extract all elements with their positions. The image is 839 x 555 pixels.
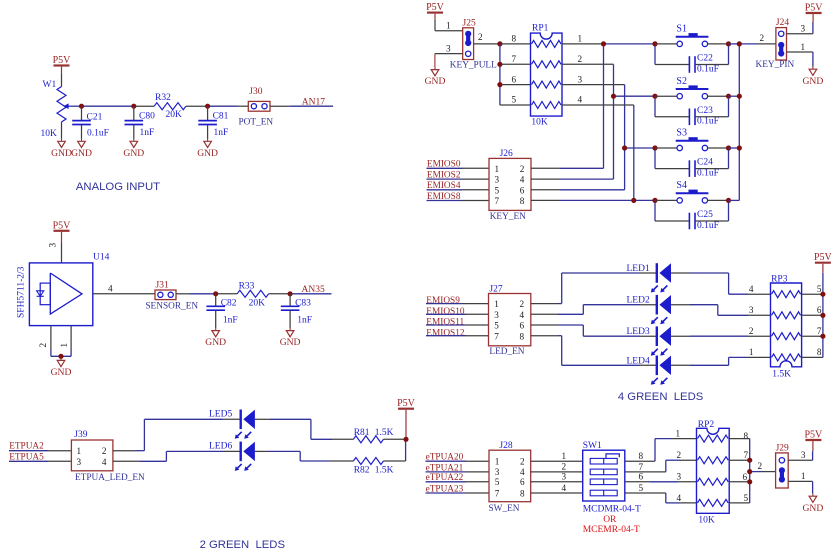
- wire: [502, 43, 530, 45]
- node junction (S4 tap): [631, 198, 636, 203]
- svg-text:0.1uF: 0.1uF: [697, 221, 719, 231]
- value label MCDMR-04-T: [583, 504, 641, 514]
- capacitor C81: [198, 106, 228, 138]
- node junction (RP1 pin6): [497, 82, 502, 87]
- wire: [802, 335, 821, 337]
- pin 3 label SW1: [562, 472, 567, 482]
- svg-text:SENSOR_EN: SENSOR_EN: [145, 302, 198, 312]
- svg-text:J25: J25: [463, 18, 476, 28]
- svg-text:2: 2: [578, 54, 583, 64]
- node junction (S1 left): [652, 41, 657, 46]
- wire: [627, 147, 653, 149]
- node junction (RP3 pin5): [820, 292, 825, 297]
- wire: [636, 199, 653, 201]
- pin 4 label RP1: [578, 95, 583, 105]
- svg-text:2: 2: [38, 343, 48, 348]
- pin 8 label RP2: [744, 431, 749, 441]
- wire: [61, 243, 63, 263]
- svg-text:1nF: 1nF: [214, 128, 229, 138]
- pin 6 label RP1: [512, 74, 517, 84]
- node junction (C83): [288, 291, 293, 296]
- wire: [300, 451, 353, 461]
- net EMIOS2: [427, 170, 490, 180]
- node junction (S4 left): [652, 198, 657, 203]
- wire: [531, 325, 584, 336]
- wire: [671, 335, 771, 337]
- svg-text:6: 6: [743, 472, 748, 482]
- svg-text:C21: C21: [87, 113, 103, 123]
- pin 5 label RP3: [817, 284, 822, 294]
- capacitor C24: [689, 158, 719, 179]
- svg-text:7: 7: [495, 488, 500, 498]
- svg-text:LED5: LED5: [209, 410, 232, 420]
- node junction (S2 right): [726, 94, 731, 99]
- svg-text:U14: U14: [93, 252, 110, 262]
- wire: [752, 471, 776, 473]
- pin 4 label RP3: [749, 284, 754, 294]
- svg-text:EMIOS11: EMIOS11: [426, 318, 464, 328]
- svg-text:1nF: 1nF: [297, 316, 312, 326]
- capacitor C22: [689, 54, 719, 75]
- svg-text:2: 2: [102, 446, 107, 456]
- wire: [613, 64, 615, 179]
- svg-text:7: 7: [495, 196, 500, 206]
- wire: [729, 199, 740, 201]
- net EMIOS12: [426, 328, 489, 338]
- wire: [655, 202, 689, 221]
- svg-text:8: 8: [639, 451, 644, 461]
- svg-text:LED6: LED6: [209, 442, 232, 452]
- svg-text:10K: 10K: [41, 129, 58, 139]
- svg-text:EMIOS12: EMIOS12: [426, 328, 465, 338]
- pin 8 label RP3: [817, 347, 822, 357]
- ground (J24): [803, 67, 824, 87]
- wire: [70, 326, 72, 357]
- pin 2 label RP3: [749, 326, 754, 336]
- svg-text:3: 3: [801, 450, 806, 460]
- resistor R33: [237, 281, 268, 308]
- wire: [729, 147, 740, 149]
- svg-text:RP3: RP3: [771, 274, 788, 284]
- wire: [729, 43, 740, 45]
- LED4: [627, 356, 672, 385]
- wire: [84, 105, 132, 107]
- resistor R32: [154, 93, 186, 120]
- wire: [742, 43, 776, 45]
- title 2 GREEN LEDS: [200, 539, 286, 551]
- resistor R81: [353, 428, 393, 443]
- svg-text:R32: R32: [155, 93, 171, 103]
- net eTPUA21: [426, 463, 490, 473]
- svg-text:R82: R82: [354, 465, 370, 475]
- wire: [671, 357, 729, 365]
- pin 5 label RP1: [512, 95, 517, 105]
- wire: [655, 46, 689, 65]
- wire: [531, 492, 583, 494]
- svg-text:SW_EN: SW_EN: [489, 504, 520, 514]
- svg-text:2: 2: [749, 326, 754, 336]
- pin 2 label U14: [38, 343, 48, 348]
- node junction (U14 gnd): [58, 354, 63, 359]
- potentiometer W1: [41, 80, 67, 139]
- node junction (S1 right): [726, 41, 731, 46]
- wire: [61, 122, 63, 139]
- node junction (bus S1): [737, 41, 742, 46]
- wire: [583, 304, 656, 306]
- svg-text:EMIOS9: EMIOS9: [426, 296, 460, 306]
- net EMIOS9: [426, 296, 489, 306]
- jumper J24: [756, 18, 795, 70]
- svg-text:1nF: 1nF: [140, 128, 155, 138]
- power symbol P5V (sensor): [53, 220, 72, 243]
- net eTPUA22: [426, 473, 490, 483]
- wire: [255, 450, 300, 452]
- wire: [531, 167, 604, 169]
- wire: [695, 202, 729, 221]
- net eTPUA20: [426, 453, 490, 463]
- wire: [113, 450, 144, 452]
- svg-text:LED3: LED3: [627, 327, 650, 337]
- svg-text:1: 1: [578, 34, 583, 44]
- pin 1 label RP1: [578, 34, 583, 44]
- node junction (S2 left): [652, 94, 657, 99]
- LED2: [627, 295, 672, 324]
- svg-text:4: 4: [520, 310, 525, 320]
- svg-text:LED_EN: LED_EN: [489, 347, 524, 357]
- pin 1 label U14: [59, 343, 69, 348]
- wire: [729, 356, 771, 358]
- svg-text:J26: J26: [500, 149, 513, 159]
- svg-text:R33: R33: [239, 281, 255, 291]
- svg-text:4: 4: [749, 284, 754, 294]
- svg-text:P5V: P5V: [426, 2, 445, 13]
- wire: [383, 438, 403, 440]
- svg-text:4 GREEN LEDS: 4 GREEN LEDS: [618, 391, 704, 403]
- pin 5 label RP2: [744, 493, 749, 503]
- pin 7 label RP3: [817, 326, 822, 336]
- svg-text:J27: J27: [489, 284, 502, 294]
- svg-text:C25: C25: [697, 210, 713, 220]
- pushbutton switch S4: [655, 180, 729, 203]
- svg-text:J24: J24: [776, 18, 789, 28]
- title 4 GREEN LEDS: [618, 391, 704, 403]
- svg-text:MCDMR-04-T: MCDMR-04-T: [583, 504, 641, 514]
- svg-text:1: 1: [676, 428, 681, 438]
- wire: [531, 481, 583, 483]
- ground (J29): [803, 494, 824, 514]
- ground (C81): [197, 139, 218, 159]
- wire: [802, 356, 823, 358]
- wire: [583, 335, 656, 337]
- svg-text:P5V: P5V: [805, 3, 824, 14]
- svg-text:GND: GND: [205, 337, 226, 348]
- svg-text:C23: C23: [697, 106, 713, 116]
- svg-text:7: 7: [494, 331, 499, 341]
- svg-text:3: 3: [495, 175, 500, 185]
- svg-text:1.5K: 1.5K: [375, 465, 394, 475]
- svg-text:GND: GND: [280, 337, 301, 348]
- power symbol P5V (2 leds): [397, 398, 416, 437]
- wire: [51, 355, 71, 357]
- pin 7 label RP2: [744, 450, 749, 460]
- svg-text:8: 8: [744, 431, 749, 441]
- wire: [562, 364, 657, 366]
- LED3: [627, 326, 672, 355]
- wire: [269, 293, 288, 295]
- wire: [133, 125, 135, 139]
- title ANALOG INPUT: [76, 181, 160, 193]
- pushbutton switch S1: [655, 24, 729, 47]
- svg-text:10K: 10K: [531, 118, 548, 128]
- wire: [671, 273, 729, 294]
- wire: [562, 43, 601, 45]
- svg-text:C83: C83: [295, 298, 311, 308]
- node junction (C80): [131, 104, 136, 109]
- svg-text:3: 3: [494, 310, 499, 320]
- wire: [788, 481, 812, 493]
- svg-text:3: 3: [749, 305, 754, 315]
- svg-text:0.1uF: 0.1uF: [697, 169, 719, 179]
- svg-text:4: 4: [520, 467, 525, 477]
- svg-text:POT_EN: POT_EN: [239, 118, 274, 128]
- svg-text:SFH5711-2/3: SFH5711-2/3: [17, 266, 27, 318]
- wire: [186, 105, 206, 107]
- wire: [143, 419, 145, 450]
- pin 3 label RP3: [749, 305, 754, 315]
- pushbutton switch S3: [655, 128, 729, 151]
- pin 2 label RP1: [578, 54, 583, 64]
- wire: [311, 419, 354, 439]
- wire: [625, 439, 697, 462]
- svg-text:P5V: P5V: [53, 55, 72, 66]
- wire: [671, 305, 718, 316]
- svg-text:4: 4: [677, 493, 682, 503]
- wire: [71, 105, 80, 107]
- wire: [655, 98, 689, 117]
- wire: [625, 481, 697, 483]
- wire: [531, 189, 625, 191]
- net AN17: [290, 97, 333, 107]
- svg-text:2: 2: [562, 462, 567, 472]
- wire: [695, 98, 729, 117]
- jumper J30: [239, 87, 274, 128]
- svg-text:ETPUA2: ETPUA2: [9, 441, 44, 451]
- svg-text:J30: J30: [249, 87, 262, 97]
- ground (J25): [425, 67, 446, 87]
- node junction (S2 tap): [611, 94, 616, 99]
- wire: [218, 293, 237, 295]
- wire: [729, 481, 747, 483]
- ground (W1): [51, 139, 72, 159]
- svg-text:4: 4: [520, 175, 525, 185]
- svg-text:S1: S1: [676, 24, 687, 35]
- capacitor C21: [72, 106, 109, 138]
- wire: [787, 52, 813, 67]
- net EMIOS8: [427, 192, 490, 202]
- svg-text:RP1: RP1: [532, 24, 549, 34]
- svg-text:3: 3: [446, 43, 451, 53]
- svg-text:RP2: RP2: [698, 420, 715, 430]
- wire: [50, 326, 52, 357]
- wire: [633, 105, 635, 200]
- node junction (bus S3): [737, 145, 742, 150]
- svg-text:0.1uF: 0.1uF: [697, 117, 719, 127]
- pin 2 label J29: [758, 461, 763, 471]
- wire: [474, 43, 498, 45]
- svg-text:5: 5: [744, 493, 749, 503]
- value label OR: [603, 515, 617, 525]
- svg-text:GND: GND: [51, 367, 72, 378]
- wire: [729, 459, 747, 461]
- wire: [616, 95, 653, 97]
- svg-text:2: 2: [677, 450, 682, 460]
- wire: [655, 150, 689, 169]
- pin 8 label SW1: [639, 451, 644, 461]
- svg-text:OR: OR: [603, 515, 617, 525]
- jumper J25: [450, 18, 497, 70]
- wire: [729, 502, 750, 504]
- capacitor C83: [281, 294, 312, 326]
- wire: [625, 493, 697, 503]
- pin 3 label J25: [446, 43, 451, 53]
- wire: [531, 471, 583, 473]
- power symbol P5V (analog input): [53, 55, 72, 74]
- pin 1 label SW1: [562, 451, 567, 461]
- svg-text:C80: C80: [139, 112, 155, 122]
- svg-text:6: 6: [520, 185, 525, 195]
- pin 1 label J25: [446, 21, 451, 31]
- wire: [435, 54, 463, 67]
- wire: [695, 150, 729, 169]
- power symbol P5V (key pin): [805, 3, 824, 23]
- svg-text:2: 2: [520, 164, 525, 174]
- capacitor C80: [125, 106, 156, 138]
- wire: [787, 22, 813, 34]
- power symbol P5V (4 leds): [814, 252, 833, 273]
- svg-text:1: 1: [801, 471, 806, 481]
- ground (U14): [51, 358, 72, 378]
- pin 7 label RP1: [512, 54, 517, 64]
- svg-text:10K: 10K: [698, 516, 715, 526]
- wire: [210, 105, 249, 107]
- resistor pack RP3: [771, 274, 802, 379]
- pin 1 label J24: [801, 42, 806, 52]
- svg-text:KEY_PULL: KEY_PULL: [450, 61, 497, 71]
- jumper J31: [145, 281, 198, 312]
- node junction (J25/RP1 pin8): [497, 41, 502, 46]
- node junction (RP2/J29): [747, 469, 752, 474]
- node junction (RP3 pin7): [820, 334, 825, 339]
- wire: [729, 438, 750, 440]
- ground (C82): [205, 328, 226, 348]
- svg-text:5: 5: [512, 95, 517, 105]
- svg-text:EMIOS10: EMIOS10: [426, 307, 465, 317]
- connector J39: [71, 430, 145, 483]
- svg-text:S4: S4: [676, 180, 687, 191]
- ground (C21): [71, 139, 92, 159]
- node junction (RP3 pin6): [820, 313, 825, 318]
- svg-text:3: 3: [77, 457, 82, 467]
- net EMIOS11: [426, 318, 489, 328]
- wire: [255, 418, 311, 420]
- ground (C83): [280, 328, 301, 348]
- wire: [500, 44, 531, 105]
- wire: [81, 125, 83, 139]
- power symbol P5V (sw): [805, 430, 824, 452]
- svg-text:KEY_PIN: KEY_PIN: [756, 60, 795, 70]
- svg-text:S3: S3: [676, 128, 687, 139]
- pin 3 label J29: [801, 450, 806, 460]
- wire: [531, 273, 562, 304]
- pin 3 label RP1: [578, 74, 583, 84]
- node junction (C82): [213, 291, 218, 296]
- svg-text:20K: 20K: [249, 298, 266, 308]
- svg-text:1.5K: 1.5K: [772, 370, 791, 380]
- wire: [802, 293, 821, 295]
- pin 6 label RP2: [743, 472, 748, 482]
- svg-text:AN35: AN35: [302, 285, 325, 295]
- wire: [531, 178, 614, 180]
- wire: [603, 46, 605, 168]
- wire: [383, 442, 405, 462]
- wire: [165, 451, 167, 461]
- pin 2 label J24: [760, 33, 765, 43]
- svg-text:1: 1: [77, 446, 82, 456]
- node junction (RP1 pin1 bus): [601, 41, 606, 46]
- wire: [289, 311, 291, 328]
- wire: [625, 460, 697, 472]
- svg-text:SW1: SW1: [583, 441, 602, 451]
- svg-text:6: 6: [639, 472, 644, 482]
- svg-text:4: 4: [578, 95, 583, 105]
- svg-text:R81: R81: [354, 428, 370, 438]
- svg-text:1: 1: [59, 343, 69, 348]
- svg-text:2 GREEN LEDS: 2 GREEN LEDS: [200, 539, 286, 551]
- pin 1 label RP2: [676, 428, 681, 438]
- wire: [144, 418, 240, 420]
- net EMIOS0: [427, 160, 490, 170]
- connector J27: [489, 284, 531, 357]
- svg-text:1nF: 1nF: [223, 316, 238, 326]
- pin 3 label J24: [801, 24, 806, 34]
- node junction (S3 left): [652, 145, 657, 150]
- wire: [113, 460, 166, 462]
- connector J28: [489, 441, 531, 514]
- svg-text:J28: J28: [499, 441, 512, 451]
- svg-text:5: 5: [495, 185, 500, 195]
- net EMIOS4: [427, 181, 490, 191]
- svg-text:1: 1: [749, 347, 754, 357]
- svg-text:ANALOG INPUT: ANALOG INPUT: [76, 181, 160, 193]
- svg-text:5: 5: [494, 321, 499, 331]
- wire: [606, 43, 653, 45]
- wire (RP2 common bus): [749, 439, 751, 503]
- svg-text:0.1uF: 0.1uF: [87, 129, 109, 139]
- net EMIOS10: [426, 307, 489, 317]
- wire: [562, 272, 657, 274]
- svg-text:4: 4: [108, 284, 113, 294]
- net eTPUA23: [426, 484, 490, 494]
- wire: [802, 314, 821, 316]
- svg-text:5: 5: [639, 483, 644, 493]
- svg-text:GND: GND: [803, 76, 824, 87]
- svg-text:1.5K: 1.5K: [375, 428, 394, 438]
- svg-text:8: 8: [512, 34, 517, 44]
- svg-text:3: 3: [48, 243, 58, 248]
- capacitor C82: [206, 294, 237, 326]
- jumper J29: [776, 444, 789, 488]
- svg-text:7: 7: [512, 54, 517, 64]
